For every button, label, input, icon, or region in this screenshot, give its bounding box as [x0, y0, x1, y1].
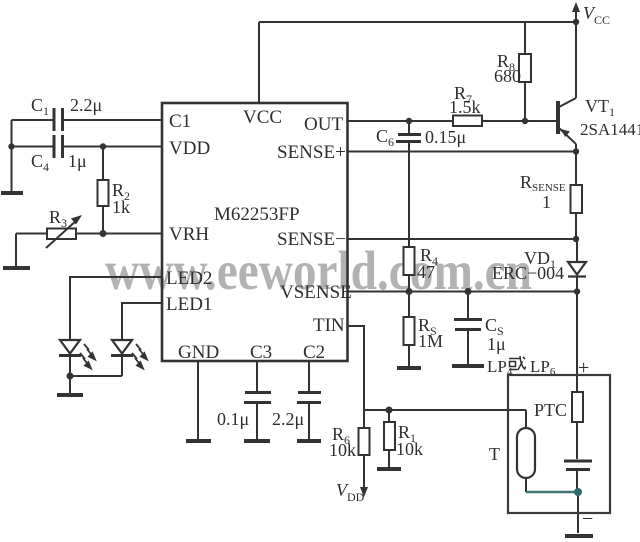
svg-text:TIN: TIN — [313, 315, 345, 336]
svg-text:1k: 1k — [112, 197, 130, 217]
svg-text:OUT: OUT — [304, 114, 343, 135]
svg-text:VRH: VRH — [169, 224, 209, 245]
svg-text:M62253FP: M62253FP — [214, 204, 300, 225]
svg-text:C1: C1 — [31, 95, 49, 118]
svg-text:1: 1 — [542, 192, 551, 212]
svg-text:RSENSE: RSENSE — [520, 172, 566, 194]
svg-text:SENSE−: SENSE− — [277, 229, 346, 250]
svg-text:2SA1441: 2SA1441 — [580, 120, 640, 139]
svg-text:DD: DD — [347, 490, 365, 504]
svg-text:1μ: 1μ — [68, 151, 87, 171]
svg-text:1μ: 1μ — [487, 334, 506, 354]
svg-text:C1: C1 — [169, 111, 191, 132]
svg-text:VT1: VT1 — [585, 96, 615, 119]
svg-text:C3: C3 — [250, 342, 272, 363]
svg-text:2.2μ: 2.2μ — [272, 409, 304, 429]
svg-text:1M: 1M — [418, 331, 443, 351]
svg-text:VSENSE: VSENSE — [280, 282, 352, 303]
svg-text:LP4: LP4 — [487, 357, 513, 378]
svg-text:0.1μ: 0.1μ — [217, 409, 249, 429]
svg-text:C6: C6 — [376, 126, 394, 149]
svg-text:VCC: VCC — [243, 107, 282, 128]
svg-text:C2: C2 — [303, 342, 325, 363]
svg-text:ERC−004: ERC−004 — [492, 263, 564, 283]
svg-text:10k: 10k — [396, 439, 423, 459]
svg-text:47: 47 — [417, 262, 435, 282]
svg-text:1.5k: 1.5k — [449, 97, 481, 117]
svg-text:680: 680 — [494, 66, 521, 86]
svg-text:T: T — [489, 444, 500, 464]
svg-text:CC: CC — [594, 13, 610, 27]
svg-text:LED1: LED1 — [166, 294, 212, 315]
svg-text:LED2: LED2 — [166, 268, 212, 289]
svg-text:LP6: LP6 — [530, 357, 556, 378]
svg-text:GND: GND — [178, 342, 219, 363]
svg-text:2.2μ: 2.2μ — [70, 95, 102, 115]
svg-text:PTC: PTC — [534, 400, 567, 420]
svg-text:0.15μ: 0.15μ — [425, 127, 466, 147]
svg-text:C4: C4 — [31, 151, 49, 174]
svg-text:SENSE+: SENSE+ — [277, 142, 346, 163]
svg-text:R3: R3 — [49, 207, 67, 230]
svg-text:VDD: VDD — [169, 138, 210, 159]
svg-text:+: + — [578, 357, 589, 379]
svg-text:10k: 10k — [329, 440, 356, 460]
svg-text:−: − — [582, 508, 593, 530]
